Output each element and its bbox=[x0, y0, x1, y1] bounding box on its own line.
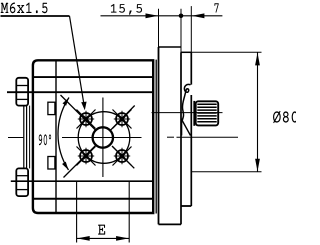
diagonal through bolt TL bbox=[61, 95, 96, 130]
squiggle lower diagonal bbox=[182, 121, 190, 136]
side view rear body top bbox=[159, 46, 182, 48]
text 90deg bbox=[39, 134, 51, 145]
front view centerline extended right bbox=[167, 136, 174, 138]
spline teeth bbox=[197, 104, 216, 121]
dim text 7 bbox=[214, 3, 218, 12]
diagonal through bolt BR bbox=[112, 146, 134, 168]
side view plate bottom bbox=[181, 205, 191, 207]
extension line x191.3 upper bbox=[190, 6, 192, 52]
bolt TR bbox=[113, 110, 132, 129]
body line y77 bbox=[33, 76, 153, 78]
side view flange face x191.3 bbox=[190, 52, 192, 84]
hex plug bottom bbox=[16, 168, 28, 196]
side view plate boundary x181 bbox=[180, 52, 182, 224]
arrowhead right at x158.5 bbox=[146, 13, 159, 18]
extension line x158.5 upper bbox=[158, 9, 160, 47]
bolt TL bbox=[77, 110, 96, 129]
E arrowhead left bbox=[77, 236, 90, 241]
flange vertical centerline bbox=[102, 98, 104, 178]
90 degree arc bbox=[58, 98, 69, 171]
E dimension line bbox=[77, 237, 130, 239]
extension line x181 upper bbox=[180, 9, 182, 53]
bolt BR bbox=[113, 147, 132, 166]
hex plug top bbox=[16, 78, 28, 106]
rear plate right edge x156.2 bbox=[155, 60, 157, 214]
label M6x1.5 bbox=[1, 3, 48, 14]
side view rear body bottom bbox=[159, 223, 182, 225]
front view body outline bbox=[33, 60, 153, 213]
dia80 dimension line bbox=[257, 52, 259, 172]
side view rear face x158.5 bbox=[158, 47, 160, 224]
flange horizontal centerline bbox=[62, 137, 142, 139]
spline block bbox=[196, 101, 219, 125]
body line y181 with plug centerline bbox=[11, 180, 153, 182]
arc arrowhead top bbox=[63, 98, 70, 106]
bolt BL bbox=[77, 147, 96, 166]
E extension line right bbox=[128, 181, 130, 242]
diagonal through bolt TR bbox=[111, 106, 135, 131]
leader line M6x1.5 bbox=[70, 16, 85, 107]
dia80 extension top bbox=[191, 51, 261, 53]
port centerline left bbox=[8, 137, 23, 139]
shaft centerline bbox=[152, 112, 223, 114]
port plate edge lines bbox=[23, 106, 25, 169]
shaft hole circle bbox=[93, 127, 113, 147]
body line y198.8 bbox=[33, 198, 153, 200]
slot 2 bbox=[48, 157, 55, 170]
hex plug bottom flats bbox=[16, 175, 28, 177]
E arrowhead right bbox=[116, 236, 129, 241]
dim dot terminator bbox=[179, 14, 184, 19]
side view plate top bbox=[181, 51, 191, 53]
shaft spacer disc bbox=[193, 101, 195, 126]
leader arrowhead M6x1.5 bbox=[81, 102, 86, 111]
text E bbox=[98, 225, 105, 235]
dim text 15,5 bbox=[111, 4, 142, 15]
dim line top bbox=[101, 15, 223, 17]
arc arrowhead bottom bbox=[62, 162, 68, 170]
diagonal through bolt BL bbox=[64, 145, 96, 177]
hex plug top flats bbox=[16, 85, 28, 87]
E extension line left bbox=[76, 181, 78, 242]
inner vertical x56 bbox=[55, 60, 57, 213]
slot 1 bbox=[48, 102, 55, 114]
dia80 arrowhead top bbox=[255, 53, 260, 66]
dia80 extension bottom bbox=[191, 171, 261, 173]
squiggle lower vertical bbox=[181, 119, 183, 136]
bolt circle BCD bbox=[78, 112, 130, 164]
body line y92 with plug centerline bbox=[7, 91, 153, 93]
leader underline M6x1.5 bbox=[1, 15, 70, 17]
dia80 arrowhead bottom bbox=[255, 159, 260, 172]
text dia80 bbox=[273, 111, 298, 123]
shaft break squiggle bbox=[182, 84, 190, 120]
arrowhead left at x191.3 bbox=[192, 13, 205, 18]
